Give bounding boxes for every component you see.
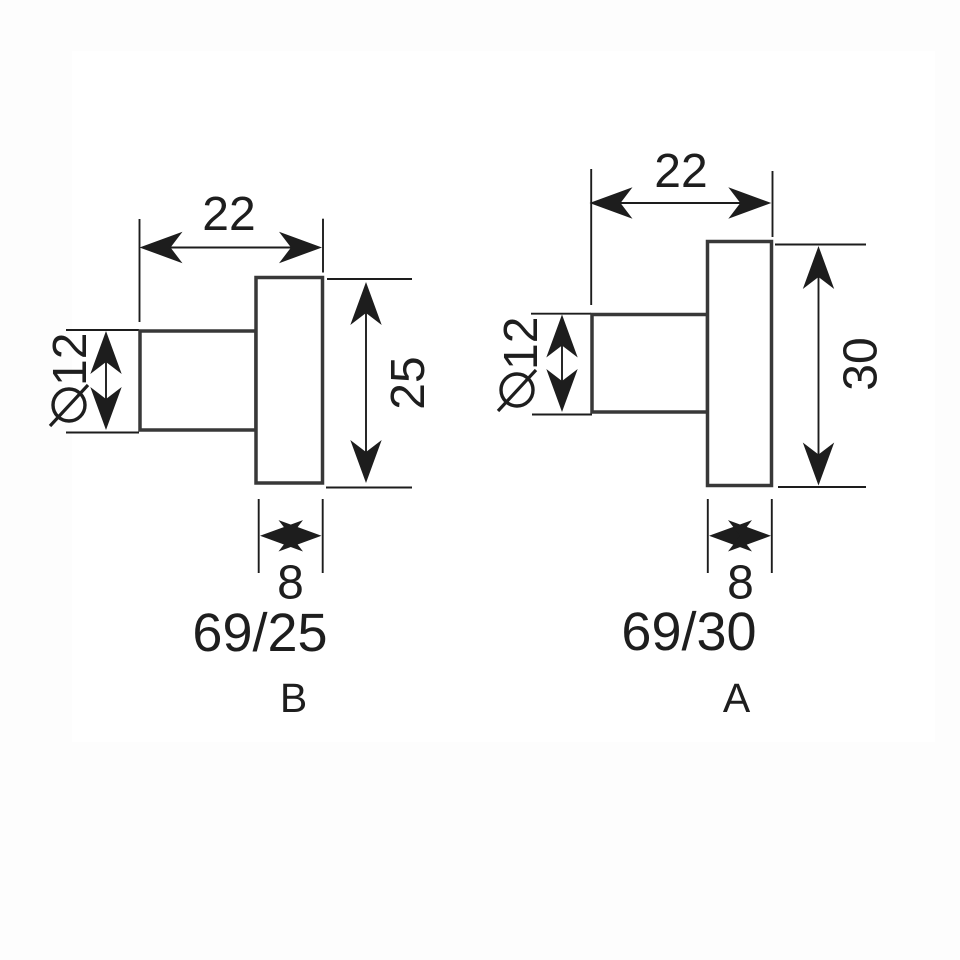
- right fig: 30-dim top extension line: [775, 244, 866, 246]
- left fig: knob stem outline: [140, 331, 256, 430]
- right fig: dia12 up arrowhead: [546, 315, 577, 358]
- left fig: 22-dim left extension line: [139, 219, 141, 322]
- svg-text:A: A: [723, 675, 751, 721]
- left fig: dia12 dim line: [105, 335, 107, 427]
- left fig: knob flange outline: [256, 278, 323, 484]
- right fig: 22-dim left extension line: [590, 169, 592, 305]
- svg-text:12: 12: [495, 317, 548, 370]
- left fig: 25-dim bottom extension line: [326, 487, 412, 489]
- left fig: 25-dim up arrowhead: [350, 282, 381, 325]
- right fig: dia12 down arrowhead: [546, 369, 577, 412]
- left fig: dia12 up arrowhead: [90, 331, 121, 374]
- right fig: dimension text dia12: [495, 317, 548, 411]
- left fig: 25-dim top extension line: [327, 278, 412, 280]
- right fig: 30-dim down arrowhead: [803, 443, 834, 486]
- right fig: 8-dim left arrowhead: [709, 520, 752, 551]
- left fig: dimension text dia12: [44, 333, 97, 426]
- left fig: 22-dim right extension line: [322, 219, 324, 273]
- svg-text:22: 22: [654, 145, 707, 198]
- svg-text:12: 12: [44, 333, 97, 386]
- left fig: 22-dim left arrowhead: [140, 232, 183, 263]
- svg-text:69/30: 69/30: [621, 602, 756, 662]
- right fig: 30-dim up arrowhead: [803, 246, 834, 289]
- left fig: 25-dim down arrowhead: [350, 440, 381, 483]
- svg-text:25: 25: [382, 356, 435, 409]
- right fig: 30-dim line: [818, 250, 820, 482]
- white backdrop band: [72, 51, 935, 742]
- left fig: 8-dim left arrowhead: [260, 520, 303, 551]
- left fig: dia12 top extension line: [66, 329, 139, 331]
- right fig: 30-dim bottom extension line: [778, 486, 866, 488]
- svg-text:30: 30: [835, 337, 888, 390]
- right fig: 22-dim right arrowhead: [728, 187, 771, 218]
- right fig: dia12 dim line: [561, 318, 563, 409]
- right fig: 22-dim right extension line: [772, 171, 774, 237]
- left fig: 8-dim left extension line: [258, 499, 260, 573]
- svg-text:B: B: [280, 675, 307, 721]
- right fig: 22-dim left arrowhead: [590, 187, 633, 218]
- left fig: 22-dim right arrowhead: [279, 232, 322, 263]
- svg-text:22: 22: [202, 188, 255, 241]
- right fig: knob stem outline: [592, 315, 708, 413]
- right fig: 8-dim right arrowhead: [728, 520, 771, 551]
- left fig: 8-dim right arrowhead: [279, 520, 322, 551]
- left fig: 22-dim line: [150, 247, 312, 249]
- left fig: 8-dim right extension line: [322, 499, 324, 573]
- svg-text:8: 8: [277, 557, 304, 610]
- right fig: dia12 top extension line: [531, 313, 591, 315]
- right fig: 8-dim left extension line: [707, 499, 709, 573]
- right fig: 8-dim right extension line: [771, 499, 773, 573]
- right fig: knob flange outline: [708, 242, 772, 486]
- left fig: dia12 down arrowhead: [90, 387, 121, 430]
- svg-text:69/25: 69/25: [192, 603, 327, 663]
- right fig: dia12 bottom extension line: [532, 414, 592, 416]
- left fig: 25-dim line: [365, 286, 367, 479]
- left fig: dia12 bottom extension line: [66, 432, 139, 434]
- right fig: 22-dim line: [600, 202, 762, 204]
